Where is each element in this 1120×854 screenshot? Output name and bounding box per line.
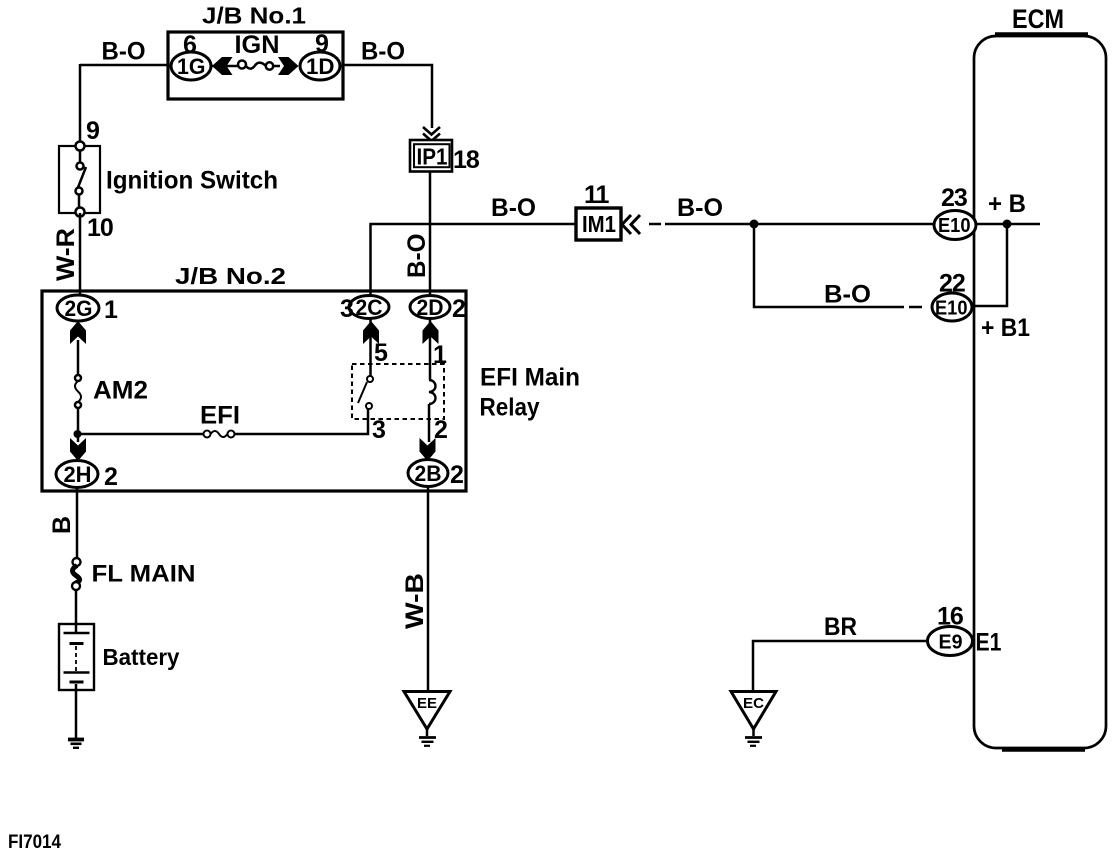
svg-text:1D: 1D — [306, 54, 335, 79]
svg-text:ECM: ECM — [1012, 4, 1064, 34]
svg-text:Relay: Relay — [480, 394, 540, 422]
wire B-O top right — [343, 65, 432, 128]
svg-text:FI7014: FI7014 — [8, 832, 61, 853]
svg-text:2H: 2H — [64, 462, 92, 487]
svg-text:5: 5 — [374, 339, 388, 367]
svg-text:18: 18 — [453, 146, 480, 174]
svg-text:IGN: IGN — [235, 31, 280, 59]
svg-text:EC: EC — [743, 695, 764, 712]
arrow down into 2B — [420, 438, 436, 461]
svg-text:B-O: B-O — [824, 281, 871, 309]
connector 2B — [408, 460, 448, 487]
svg-text:IM1: IM1 — [582, 211, 616, 237]
svg-text:1G: 1G — [177, 54, 206, 79]
wire ignition switch to J/B No.2 — [79, 213, 82, 295]
svg-text:Ignition Switch: Ignition Switch — [106, 167, 278, 195]
connector 2H — [56, 461, 98, 488]
wire EFI row — [78, 433, 204, 436]
chevron arrows above IP1 — [423, 127, 440, 135]
svg-text:11: 11 — [584, 181, 610, 209]
svg-text:2B: 2B — [415, 461, 442, 486]
svg-text:B-O: B-O — [102, 38, 146, 66]
connector E10 23 — [934, 211, 976, 240]
wire coil down to 2B — [428, 404, 431, 442]
svg-text:2D: 2D — [417, 295, 444, 320]
wire IM1 to E10 — [649, 223, 661, 226]
arrow into 1D (pointing right) — [278, 57, 299, 75]
svg-text:3: 3 — [372, 416, 385, 444]
battery — [59, 624, 94, 690]
fuse EFI — [204, 431, 211, 438]
wire down to E10 22 row — [974, 224, 1007, 306]
wire AM2 down to 2H — [77, 408, 80, 442]
svg-text:2G: 2G — [65, 296, 93, 321]
svg-text:E10: E10 — [938, 215, 971, 237]
fuse FL MAIN — [73, 558, 81, 566]
arrow into 1G (pointing left) — [212, 57, 233, 75]
svg-text:EE: EE — [417, 695, 437, 712]
svg-text:22: 22 — [939, 270, 965, 298]
wire 2H down to FL MAIN — [76, 487, 79, 558]
fuse AM2 — [75, 375, 81, 381]
svg-text:1: 1 — [104, 296, 118, 324]
svg-text:E9: E9 — [939, 632, 963, 654]
connector 2G — [57, 295, 99, 321]
connector 1D — [300, 52, 340, 80]
svg-text:E10: E10 — [935, 298, 968, 320]
connector 2C — [349, 296, 389, 319]
connector IM1 — [576, 208, 621, 240]
svg-text:FL MAIN: FL MAIN — [92, 561, 196, 588]
svg-text:B-O: B-O — [361, 38, 405, 66]
svg-text:EFI: EFI — [200, 402, 240, 430]
ECM box — [974, 36, 1106, 748]
svg-text:+ B: + B — [988, 190, 1026, 218]
wire FL MAIN to battery — [75, 590, 78, 624]
svg-text:W-B: W-B — [401, 573, 429, 629]
svg-text:2: 2 — [104, 463, 117, 491]
wire junction down to E10 22 — [754, 224, 904, 307]
wire 2C down to relay switch — [369, 318, 372, 376]
svg-text:2C: 2C — [356, 295, 383, 320]
svg-text:2: 2 — [450, 461, 463, 489]
ground EC triangle — [731, 692, 776, 730]
svg-text:B: B — [48, 516, 76, 534]
junction box J/B No.2 — [42, 291, 466, 491]
arrow up into 2C — [363, 321, 379, 344]
wire 2G to AM2 — [77, 340, 80, 375]
wire 2D down to coil — [429, 318, 432, 380]
wire BR to E9 — [753, 641, 927, 692]
svg-text:J/B No.2: J/B No.2 — [175, 263, 286, 289]
relay coil — [429, 380, 436, 404]
svg-text:AM2: AM2 — [93, 377, 148, 405]
svg-text:2: 2 — [452, 295, 465, 323]
svg-text:23: 23 — [941, 184, 967, 212]
connector E9 — [928, 627, 973, 656]
svg-text:1: 1 — [433, 341, 447, 369]
junction node — [74, 430, 82, 438]
arrow down into 2H — [70, 438, 86, 461]
svg-text:B-O: B-O — [491, 194, 536, 222]
relay switch — [367, 376, 373, 382]
svg-text:3: 3 — [340, 295, 353, 323]
connector IP1 — [410, 140, 452, 172]
ground EE triangle — [404, 692, 450, 730]
connector 2D — [410, 296, 450, 319]
wire from IP1 down to 2D — [429, 171, 432, 296]
svg-text:B-O: B-O — [677, 194, 723, 222]
svg-text:2: 2 — [434, 416, 447, 444]
wire battery to ground — [75, 690, 78, 738]
svg-text:9: 9 — [86, 117, 99, 145]
EFI main relay dashed box — [352, 364, 444, 419]
chevron arrows right of IM1 — [622, 215, 631, 234]
svg-text:+ B1: + B1 — [981, 314, 1030, 342]
svg-text:B-O: B-O — [403, 234, 431, 279]
svg-text:IP1: IP1 — [417, 144, 448, 170]
wire from corner down to ignition switch pin 9 — [79, 64, 82, 147]
svg-text:W-R: W-R — [52, 228, 80, 281]
wire through E10 23 — [976, 223, 1040, 226]
connector 1G — [171, 52, 211, 80]
svg-text:J/B No.1: J/B No.1 — [202, 3, 306, 29]
arrow up into 2G — [70, 321, 86, 344]
svg-text:Battery: Battery — [103, 644, 180, 670]
svg-text:BR: BR — [824, 613, 857, 641]
svg-text:EFI Main: EFI Main — [480, 364, 580, 392]
svg-text:16: 16 — [937, 603, 963, 631]
junction node — [750, 220, 759, 229]
arrow up into 2D — [423, 321, 439, 344]
svg-text:E1: E1 — [976, 629, 1002, 657]
wire 2C corner to IM1 — [371, 224, 577, 296]
wire inside J/B No.1 — [211, 65, 238, 68]
connector E10 22 — [932, 293, 972, 321]
svg-text:10: 10 — [87, 214, 113, 242]
junction box J/B No.1 — [168, 32, 343, 99]
wire 2B down to EE ground — [427, 487, 430, 692]
ground below battery — [68, 738, 84, 742]
ignition switch — [59, 146, 100, 213]
fuse IGN — [238, 61, 246, 69]
wire B-O top left horizontal — [80, 64, 168, 67]
